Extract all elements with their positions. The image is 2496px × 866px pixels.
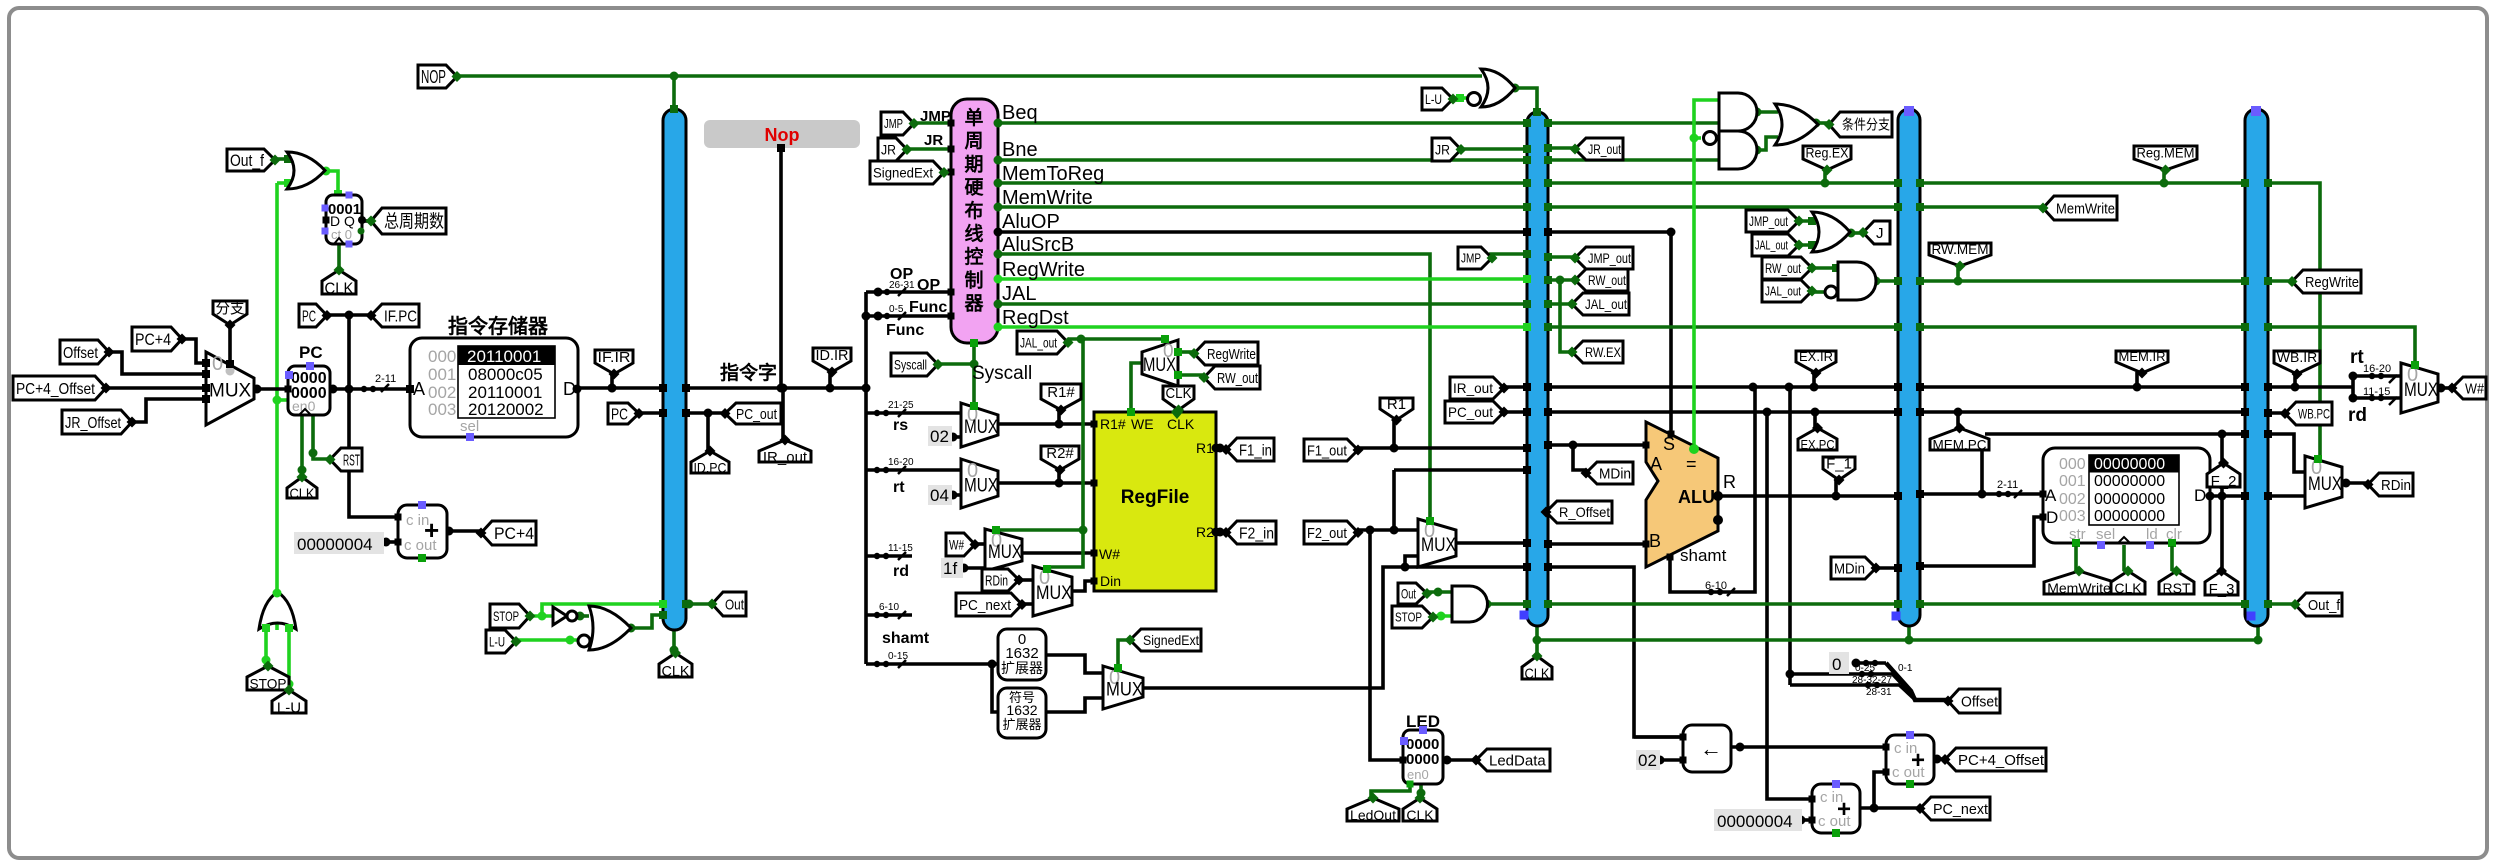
wire ID.PC stub <box>706 413 710 451</box>
svg-text:RegWrite: RegWrite <box>2305 274 2359 291</box>
wire control unit SignedExt input <box>940 170 951 174</box>
wire PC+4 adder output <box>446 529 481 533</box>
wire EX.IR stub <box>1812 372 1816 387</box>
svg-text:F2_in: F2_in <box>1239 525 1274 542</box>
tunnel LedData <box>1476 749 1550 771</box>
svg-text:26-31: 26-31 <box>889 280 915 291</box>
data memory <box>2043 448 2210 543</box>
OR gate U1 <box>287 152 325 189</box>
wire Reg.EX stub <box>1823 170 1827 183</box>
svg-text:0: 0 <box>212 353 223 375</box>
wire bar1 clock stub <box>672 629 676 653</box>
svg-text:001: 001 <box>2059 473 2086 490</box>
AND gate <box>1452 586 1488 622</box>
svg-text:布: 布 <box>964 199 983 222</box>
Nop gray banner <box>704 120 860 148</box>
svg-text:rd: rd <box>2348 405 2367 426</box>
svg-text:0-5: 0-5 <box>889 304 904 315</box>
wire W# mux out to RegFile <box>1022 551 1094 555</box>
wire rt value row (to bar2) <box>1394 468 1527 472</box>
mux PC source <box>206 352 254 425</box>
wire MDin tap elbow <box>1573 445 1586 470</box>
svg-text:STOP: STOP <box>493 608 519 624</box>
wire freeze row (dark green) <box>1487 602 1527 606</box>
wire Offset to mux <box>109 352 206 374</box>
wire jump target drop from IR <box>1788 387 1792 685</box>
adder PC+4 (c in / c out) <box>398 505 447 558</box>
adder PC+4_Offset <box>1886 735 1934 784</box>
svg-text:WB.PC: WB.PC <box>2298 406 2330 422</box>
tunnel PC+4_Offset <box>1945 748 2046 771</box>
tunnel LedOut <box>1347 798 1399 821</box>
tunnel R1 <box>1380 398 1413 420</box>
svg-text:ID.IR: ID.IR <box>816 347 849 364</box>
wire 00000004 to PC+4 adder <box>385 540 398 544</box>
svg-text:WE: WE <box>1131 416 1154 432</box>
svg-text:08000c05: 08000c05 <box>468 365 543 384</box>
wire ALU shamt path (6-10) <box>1670 387 1755 592</box>
tunnel RegWrite <box>1194 342 1258 365</box>
AND gate bne <box>1719 131 1757 169</box>
svg-text:PC+4_Offset: PC+4_Offset <box>16 381 95 398</box>
control unit 单周期硬布线控制器 <box>951 99 998 343</box>
tunnel L-U <box>1422 88 1453 110</box>
svg-text:21-25: 21-25 <box>888 400 914 411</box>
svg-text:Out: Out <box>1401 586 1416 602</box>
pipeline register bar MEM/WB <box>2245 109 2268 626</box>
svg-text:00000004: 00000004 <box>297 535 373 554</box>
svg-text:MUX: MUX <box>1036 583 1072 604</box>
tunnel RST <box>2159 571 2194 594</box>
wire mem D out to MEM/WB <box>2210 494 2245 498</box>
tunnel JAL_out <box>1017 331 1068 354</box>
svg-text:A: A <box>2045 486 2057 505</box>
tunnel RW_out <box>1204 366 1260 389</box>
tunnel CLK <box>1163 386 1194 410</box>
svg-text:←: ← <box>1700 736 1722 761</box>
svg-text:MDin: MDin <box>1834 560 1865 577</box>
tunnel 总周期数 <box>371 208 446 234</box>
wire bar3 clock stub <box>1907 626 1911 640</box>
wire ALU A row <box>1548 443 1646 447</box>
svg-text:制: 制 <box>964 268 983 291</box>
pipeline register bar EX/MEM <box>1898 109 1920 626</box>
svg-text:20110001: 20110001 <box>467 347 541 366</box>
wire rs mux out to R1# <box>998 422 1094 426</box>
svg-text:扩展器: 扩展器 <box>1002 717 1041 732</box>
svg-text:=: = <box>1686 454 1697 474</box>
tunnel 条件分支 <box>1829 112 1892 137</box>
svg-text:ALU: ALU <box>1678 487 1715 507</box>
tunnel RW_out <box>1762 257 1812 279</box>
wire instruction row ID/EX to EX/MEM (IR) <box>1500 385 1527 389</box>
svg-text:001: 001 <box>428 365 456 384</box>
wire ALU result row <box>1718 494 1898 498</box>
svg-text:R1#: R1# <box>1047 384 1075 401</box>
wire control unit JR input <box>907 147 951 151</box>
svg-text:总周期数: 总周期数 <box>384 211 444 231</box>
svg-text:EX.PC: EX.PC <box>1801 437 1835 452</box>
tunnel L-U <box>486 630 516 653</box>
svg-text:AluSrcB: AluSrcB <box>1002 234 1074 256</box>
wire PC+4_Offset adder out <box>1934 757 1945 761</box>
wire NOR output to bar1 <box>631 615 663 628</box>
tunnel EX.PC <box>1798 428 1837 450</box>
wire 02 const to rs mux <box>951 435 961 439</box>
wire RegWrite WB stub <box>2268 279 2292 283</box>
tunnel RW_out <box>1575 269 1628 291</box>
wire OR out to cond-branch tunnel <box>1816 121 1829 125</box>
svg-text:16-20: 16-20 <box>888 457 914 468</box>
svg-text:CLK: CLK <box>1167 416 1195 432</box>
svg-text:JMP: JMP <box>920 108 951 125</box>
tunnel RW.EX <box>1572 341 1623 363</box>
OR gate branch <box>1775 104 1818 145</box>
svg-text:PC+4_Offset: PC+4_Offset <box>1958 752 2045 769</box>
tunnel PC <box>299 304 327 327</box>
wire PC enable stub <box>277 398 288 402</box>
svg-text:R1: R1 <box>1196 440 1214 456</box>
svg-text:MemWrite: MemWrite <box>2056 200 2115 217</box>
tunnel IR_out <box>1450 377 1504 399</box>
wire IR row WB segment to rt/rd splitter <box>2268 385 2353 389</box>
wire shifter output to PC+4_Offset adder <box>1731 745 1886 749</box>
svg-text:单: 单 <box>964 106 983 129</box>
shifter (sll 2) <box>1683 725 1731 772</box>
svg-text:000: 000 <box>2059 456 2086 473</box>
tunnel JMP_out <box>1575 247 1633 269</box>
wire JR row into IF/ID bar <box>1453 147 1527 151</box>
wire branch select drop <box>228 325 232 364</box>
svg-text:MUX: MUX <box>964 417 998 438</box>
tunnel F_2 <box>2207 463 2240 487</box>
wire extender outputs to mux <box>1046 655 1103 673</box>
wire STOP tunnel to AND (bright) <box>1433 614 1452 618</box>
tunnel MEM.IR <box>2116 351 2168 373</box>
tunnel STOP <box>247 666 289 690</box>
svg-text:Func: Func <box>909 299 947 316</box>
svg-text:28-31: 28-31 <box>1866 687 1892 698</box>
svg-text:线: 线 <box>964 222 983 245</box>
svg-text:sel: sel <box>460 418 479 435</box>
constant 02 <box>928 426 952 446</box>
constant 04 <box>928 485 952 505</box>
zero extender 1632 <box>998 629 1046 680</box>
wire RegDst row (bright) <box>998 325 1527 329</box>
register PC <box>288 366 330 415</box>
svg-text:PC: PC <box>611 406 628 423</box>
svg-text:R2: R2 <box>1196 524 1214 540</box>
NOT gate (stop inverter) <box>553 607 567 625</box>
tunnel JAL_out <box>1762 280 1812 302</box>
wire LED data drop <box>1370 530 1403 760</box>
tunnel PC+4_Offset <box>13 376 106 400</box>
wire AluSrcB net <box>998 254 1430 519</box>
svg-text:Out: Out <box>725 596 745 613</box>
svg-text:F1_in: F1_in <box>1239 442 1272 459</box>
wire PC reg rst elbow <box>313 413 330 459</box>
wire W# tunnel to mux <box>972 542 985 546</box>
svg-text:Syscall: Syscall <box>894 357 927 373</box>
wire bright freeze vertical (left) <box>275 183 279 594</box>
svg-text:Reg.EX: Reg.EX <box>1806 145 1850 161</box>
svg-text:B: B <box>1649 531 1661 551</box>
tunnel ID.PC <box>691 451 729 473</box>
svg-text:STOP: STOP <box>250 676 287 692</box>
svg-text:扩展器: 扩展器 <box>1001 660 1043 676</box>
sign extender 符号1632 <box>998 688 1046 738</box>
tunnel CLK <box>1403 798 1437 821</box>
mux W# <box>985 529 1022 571</box>
svg-text:00000000: 00000000 <box>2094 473 2165 490</box>
tunnel R1# <box>1041 384 1081 410</box>
svg-text:11-15: 11-15 <box>2363 386 2390 398</box>
wire IR tap spine (vertical) <box>864 292 868 664</box>
wire F1_out row to bar2 <box>1358 446 1527 450</box>
constant 0 (jump splitter) <box>1829 652 1849 674</box>
svg-text:分支: 分支 <box>216 300 245 317</box>
svg-text:Out_f: Out_f <box>230 151 264 170</box>
wire shamt tap (unused stub) <box>866 613 912 617</box>
svg-text:JMP: JMP <box>1461 251 1481 266</box>
wire jump splitter <box>1790 672 1893 676</box>
wire NOP net (dark green, top) <box>457 74 1482 78</box>
svg-text:1632: 1632 <box>1006 702 1037 718</box>
svg-text:IF.IR: IF.IR <box>598 349 631 366</box>
wire row434 WB elbow to RDin mux <box>2268 434 2305 472</box>
wire PC_next tunnel to Din mux <box>1019 602 1033 606</box>
svg-text:rs: rs <box>893 417 908 434</box>
wire PC row through bar1 <box>639 411 663 415</box>
wire R1# tunnel stub <box>1057 410 1061 424</box>
svg-text:11-15: 11-15 <box>888 543 913 554</box>
tunnel PC+4 <box>481 521 536 545</box>
svg-text:000: 000 <box>428 347 456 366</box>
wire JMP_out/JAL_out or-gate inputs and output to J <box>1796 219 1814 223</box>
svg-text:Func: Func <box>886 322 924 339</box>
wire IR row MEM segment <box>1920 385 2245 389</box>
tunnel MemWrite <box>2044 571 2114 594</box>
svg-text:MemWrite: MemWrite <box>2047 580 2111 596</box>
svg-text:Reg.MEM: Reg.MEM <box>2137 145 2195 161</box>
mux Din <box>1033 566 1072 616</box>
svg-text:JR: JR <box>881 142 896 158</box>
svg-text:RST: RST <box>2163 580 2191 596</box>
svg-text:R1: R1 <box>1387 396 1406 413</box>
svg-text:MUX: MUX <box>964 476 998 497</box>
svg-text:RegFile: RegFile <box>1121 487 1190 508</box>
wire MEM.PC stub <box>1956 412 1960 429</box>
svg-text:00000000: 00000000 <box>2094 491 2165 508</box>
svg-text:CLK: CLK <box>290 485 315 502</box>
tunnel MDin <box>1831 557 1876 579</box>
wire WE mux output to RegFile WE <box>1131 363 1142 412</box>
svg-text:Offset: Offset <box>1961 693 1999 710</box>
svg-text:PC_next: PC_next <box>959 597 1012 614</box>
tunnel PC_out <box>725 403 781 424</box>
wire F_2/F_3 spine <box>2220 434 2224 571</box>
svg-text:shamt: shamt <box>1680 546 1727 565</box>
wire R2 to F2_in <box>1216 530 1226 534</box>
wire WB.IR stub <box>2293 374 2297 387</box>
tunnel WB.PC <box>2285 402 2332 425</box>
wire left OR gate output up <box>275 594 279 630</box>
constant 00000004 (right) <box>1714 809 1802 831</box>
svg-text:16-20: 16-20 <box>2363 363 2391 375</box>
svg-text:NOP: NOP <box>421 67 446 87</box>
tunnel L-U <box>272 690 306 713</box>
svg-text:JMP_out: JMP_out <box>1749 213 1788 229</box>
mux W# wb <box>2401 363 2438 413</box>
mux rt <box>961 459 998 508</box>
wire RW.MEM stub <box>1956 265 1960 281</box>
svg-text:Beq: Beq <box>1002 102 1038 124</box>
wire JAL_out net (WE select) <box>1068 337 1165 341</box>
svg-text:sel: sel <box>2096 526 2115 543</box>
svg-text:CLK: CLK <box>325 280 354 297</box>
tunnel ID.IR <box>813 348 851 372</box>
wire rt tap to mux <box>866 468 961 472</box>
svg-text:CLK: CLK <box>1406 807 1434 823</box>
svg-text:Bne: Bne <box>1002 139 1038 161</box>
wire OP tap <box>866 290 951 294</box>
wire rt mux out to R2# <box>998 481 1094 485</box>
tunnel R2# <box>1041 446 1079 470</box>
wire F2_out row to B-mux <box>1358 528 1418 532</box>
svg-text:条件分支: 条件分支 <box>1842 117 1890 133</box>
tunnel Reg.MEM <box>2134 146 2197 170</box>
tunnel WB.IR <box>2274 351 2320 374</box>
svg-text:JAL: JAL <box>1002 283 1036 305</box>
svg-text:W#: W# <box>2465 380 2485 397</box>
svg-text:L-U: L-U <box>277 699 301 716</box>
mux B <box>1418 519 1456 567</box>
svg-text:MemWrite: MemWrite <box>1002 187 1093 209</box>
svg-text:0: 0 <box>1832 655 1841 674</box>
svg-text:F2_out: F2_out <box>1307 525 1348 542</box>
wire Func tap <box>866 314 951 318</box>
svg-text:MUX: MUX <box>1106 680 1143 701</box>
tunnel IF.IR <box>595 350 633 374</box>
wire control unit JMP input <box>914 121 951 125</box>
wire MDin to EX/MEM stub <box>1876 566 1898 570</box>
svg-text:003: 003 <box>428 400 456 419</box>
wire IF.IR stub <box>610 371 614 388</box>
svg-text:Offset: Offset <box>63 345 98 362</box>
tunnel JAL_out <box>1572 293 1629 315</box>
tunnel Offset <box>1948 689 2000 713</box>
wire counter D drop <box>325 171 338 195</box>
tunnel RST <box>330 448 362 471</box>
wire L-U bright to NOR bubble <box>516 638 577 642</box>
tunnel MDin <box>1586 462 1633 484</box>
tunnel Out <box>1398 583 1427 604</box>
wire SignedExt select elbow <box>1118 640 1130 668</box>
tunnel PC <box>608 403 639 424</box>
svg-text:指令存储器: 指令存储器 <box>448 314 549 338</box>
svg-text:PC: PC <box>302 308 316 325</box>
tunnel Out_f <box>2295 593 2342 616</box>
svg-text:RegWrite: RegWrite <box>1207 346 1256 363</box>
svg-text:IR_out: IR_out <box>1453 380 1493 396</box>
svg-text:OP: OP <box>917 277 940 294</box>
svg-text:L-U: L-U <box>489 634 505 650</box>
svg-text:SignedExt: SignedExt <box>873 165 933 181</box>
svg-text:期: 期 <box>964 153 983 175</box>
svg-text:EX.IR: EX.IR <box>1799 349 1833 364</box>
svg-text:JAL_out: JAL_out <box>1020 335 1057 351</box>
AND gate rw <box>1838 262 1876 300</box>
wire 00000004 const to adder <box>1799 818 1812 822</box>
register file RegFile <box>1094 412 1216 591</box>
pipeline register bar ID/EX <box>1527 112 1548 626</box>
wire syscall net <box>972 343 976 403</box>
svg-text:WB.IR: WB.IR <box>2277 349 2317 365</box>
wire imm to B-mux elbow <box>1405 556 1418 567</box>
tunnel NOP <box>418 65 457 88</box>
svg-text:JR: JR <box>1435 142 1450 158</box>
svg-text:+: + <box>424 515 439 545</box>
svg-text:+: + <box>1911 747 1925 774</box>
svg-text:0: 0 <box>1163 341 1174 362</box>
wire Out_f stub <box>275 157 289 161</box>
svg-text:PC_next: PC_next <box>1933 801 1989 818</box>
svg-text:003: 003 <box>2059 508 2086 525</box>
wire Beq row <box>998 121 1527 125</box>
tunnel Offset <box>60 340 109 364</box>
tunnel CLK <box>322 270 356 294</box>
wire JR_out stub <box>1548 146 1575 150</box>
wire D row WB segment <box>2268 494 2305 498</box>
svg-text:1f: 1f <box>943 559 957 578</box>
tunnel 分支 <box>213 301 247 325</box>
svg-text:PC_out: PC_out <box>1448 404 1493 420</box>
wire mem address drop <box>1980 449 1984 494</box>
tunnel PC+4 <box>132 327 182 351</box>
wire L-U to XOR2 bubble <box>1453 96 1467 100</box>
wire instruction word row (black, IF) <box>577 386 663 390</box>
svg-text:en0: en0 <box>1407 767 1429 782</box>
constant 1f <box>941 558 963 578</box>
svg-text:CLK: CLK <box>662 663 690 680</box>
svg-text:MUX: MUX <box>2308 474 2342 495</box>
svg-text:F_2: F_2 <box>2211 473 2237 490</box>
tunnel RW.MEM <box>1929 243 1991 266</box>
svg-text:MUX: MUX <box>1421 535 1456 556</box>
svg-text:JR_Offset: JR_Offset <box>65 415 121 432</box>
svg-text:6-10: 6-10 <box>1705 580 1727 592</box>
mux RDin <box>2305 456 2342 508</box>
svg-text:IF.PC: IF.PC <box>384 308 417 325</box>
wire L-U stub up <box>287 626 291 690</box>
wire mem D elbow <box>1920 517 2043 566</box>
svg-text:F_1: F_1 <box>1826 455 1852 472</box>
svg-text:RDin: RDin <box>2381 477 2411 494</box>
tunnel EX.IR <box>1796 351 1836 373</box>
svg-text:RW_out: RW_out <box>1217 370 1259 387</box>
svg-text:R: R <box>1723 472 1736 492</box>
wire LED out/clk stubs <box>1371 784 1410 800</box>
svg-text:20120002: 20120002 <box>468 400 544 419</box>
wire rt/rd splitter <box>2351 376 2355 398</box>
svg-text:LedData: LedData <box>1489 752 1546 769</box>
svg-text:rd: rd <box>893 563 909 580</box>
wire 02 const to shifter <box>1658 758 1683 762</box>
svg-text:RDin: RDin <box>985 572 1008 589</box>
wire PC tunnel stubs at top <box>327 313 371 317</box>
svg-text:Nop: Nop <box>765 125 800 145</box>
wire ID.IR stub <box>828 372 832 388</box>
